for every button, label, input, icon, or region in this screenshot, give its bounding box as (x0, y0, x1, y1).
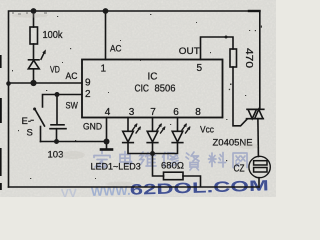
svg-text:680Ω: 680Ω (161, 161, 184, 172)
svg-text:3: 3 (129, 107, 135, 118)
svg-text:CIC: CIC (135, 83, 150, 95)
svg-text:IC: IC (148, 71, 158, 83)
svg-text:AC: AC (110, 44, 122, 55)
svg-text:6: 6 (173, 107, 179, 118)
svg-text:8506: 8506 (155, 83, 176, 95)
svg-text:1: 1 (101, 64, 107, 75)
svg-text:470: 470 (243, 48, 254, 69)
svg-text:AC: AC (66, 71, 78, 82)
svg-text:OUT: OUT (179, 46, 200, 57)
svg-text:7: 7 (150, 107, 156, 118)
svg-text:GND: GND (83, 122, 102, 133)
svg-text:9: 9 (85, 78, 91, 89)
svg-text:CZ: CZ (234, 164, 245, 175)
svg-text:VD: VD (50, 65, 60, 76)
svg-text:5: 5 (197, 63, 203, 74)
svg-text:100k: 100k (43, 30, 64, 41)
svg-text:SW: SW (66, 101, 78, 112)
svg-text:E-: E- (22, 116, 32, 127)
svg-text:2: 2 (85, 89, 91, 100)
svg-text:S: S (27, 128, 33, 139)
svg-text:8: 8 (195, 107, 201, 118)
svg-text:LED1~LED3: LED1~LED3 (91, 162, 141, 172)
svg-text:103: 103 (48, 150, 64, 161)
svg-text:4: 4 (105, 107, 111, 118)
svg-text:Vcc: Vcc (200, 125, 214, 136)
